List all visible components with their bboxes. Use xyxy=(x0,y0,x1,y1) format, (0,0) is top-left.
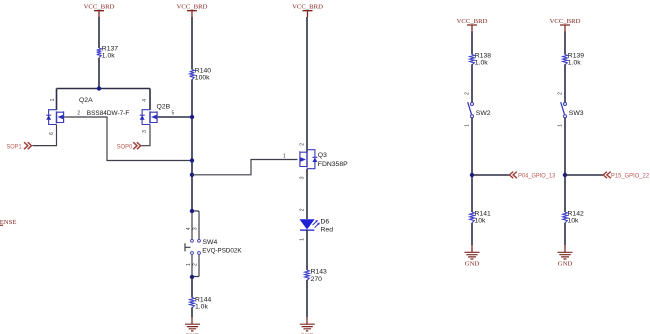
switch SW2 xyxy=(468,102,491,118)
svg-text:1: 1 xyxy=(464,124,470,127)
svg-text:SOP1: SOP1 xyxy=(7,143,23,150)
svg-text:100k: 100k xyxy=(195,74,210,81)
power VCC_BRD net 2 xyxy=(177,3,208,17)
wire to port xyxy=(565,174,603,176)
svg-text:1.0k: 1.0k xyxy=(475,59,488,66)
svg-text:SW2: SW2 xyxy=(476,110,491,117)
node SW4 top xyxy=(190,209,194,213)
svg-text:1.0k: 1.0k xyxy=(195,304,208,311)
wire xyxy=(191,307,193,317)
node Q2A gate junction xyxy=(190,158,194,162)
resistor R143 xyxy=(305,269,327,284)
wire xyxy=(471,118,473,212)
svg-text:1: 1 xyxy=(186,263,192,266)
svg-text:GND: GND xyxy=(558,260,573,267)
wire xyxy=(564,118,566,212)
node Q3 gate junction xyxy=(190,173,194,177)
node GPIO22 junction xyxy=(563,173,567,177)
svg-text:R143: R143 xyxy=(311,269,327,276)
wire to Q3 gate xyxy=(192,160,298,175)
svg-text:4: 4 xyxy=(142,99,148,102)
svg-text:Q2A: Q2A xyxy=(79,97,93,104)
svg-text:3: 3 xyxy=(299,176,305,179)
switch SW4 xyxy=(185,211,242,277)
svg-text:2: 2 xyxy=(557,92,563,95)
wire Q3 drain xyxy=(306,17,308,152)
node junction xyxy=(97,86,101,90)
power VCC_BRD net 3 xyxy=(292,3,323,17)
port P04_GPIO_13 xyxy=(509,172,555,180)
svg-text:4: 4 xyxy=(186,227,192,230)
resistor R138 xyxy=(470,52,492,66)
port SOP1 xyxy=(7,142,32,150)
svg-text:1: 1 xyxy=(50,98,56,101)
node SW4 bottom xyxy=(190,275,194,279)
wire Q2B source xyxy=(141,125,150,146)
transistor Q3 xyxy=(300,150,348,169)
resistor R142 xyxy=(563,211,584,225)
svg-text:10k: 10k xyxy=(568,218,580,225)
resistor R139 xyxy=(563,52,585,66)
wire xyxy=(98,17,100,48)
svg-text:EVQ-PSD02K: EVQ-PSD02K xyxy=(202,247,242,254)
wire xyxy=(98,58,100,89)
power VCC_BRD net 1 xyxy=(84,3,115,17)
svg-text:1: 1 xyxy=(557,124,563,127)
transistor Q2A xyxy=(46,97,93,125)
wire xyxy=(191,277,193,298)
power VCC_BRD net 4 xyxy=(457,18,488,32)
ground GND under R143 xyxy=(300,317,315,334)
svg-text:5: 5 xyxy=(172,111,175,117)
svg-text:2: 2 xyxy=(464,92,470,95)
svg-text:2: 2 xyxy=(299,143,305,146)
ground GND under R144 xyxy=(185,317,200,334)
resistor R140 xyxy=(190,67,212,81)
svg-text:SOP0: SOP0 xyxy=(117,143,133,150)
port SOP0 xyxy=(117,142,141,150)
wire top bus xyxy=(57,88,151,90)
svg-text:R137: R137 xyxy=(102,46,118,53)
svg-text:Q3: Q3 xyxy=(318,152,327,159)
power VCC_BRD net 5 xyxy=(550,18,581,32)
resistor R144 xyxy=(190,297,212,311)
wire xyxy=(564,223,566,245)
wire xyxy=(471,64,473,102)
svg-text:1.0k: 1.0k xyxy=(102,53,115,60)
svg-text:R138: R138 xyxy=(475,52,491,59)
svg-text:VCC_BRD: VCC_BRD xyxy=(550,18,581,25)
resistor R141 xyxy=(470,211,491,225)
wire vertical net2 xyxy=(191,79,193,211)
svg-text:SW4: SW4 xyxy=(203,239,218,246)
wire Q2B drain xyxy=(149,89,151,111)
svg-text:6: 6 xyxy=(49,132,55,135)
net flag SENSE (clipped at left edge) xyxy=(0,219,16,226)
switch SW3 xyxy=(561,102,584,118)
svg-text:VCC_BRD: VCC_BRD xyxy=(457,18,488,25)
wire Q2A gate to node xyxy=(64,117,192,161)
wire Q3 source to LED xyxy=(306,169,308,219)
wire xyxy=(306,230,308,270)
resistor R137 xyxy=(97,46,119,60)
svg-text:1.0k: 1.0k xyxy=(568,59,581,66)
svg-text:270: 270 xyxy=(311,276,323,283)
svg-text:R139: R139 xyxy=(568,52,584,59)
svg-text:VCC_BRD: VCC_BRD xyxy=(292,3,323,10)
svg-text:D6: D6 xyxy=(321,219,330,226)
svg-text:2: 2 xyxy=(77,111,80,117)
svg-text:P04_GPIO_13: P04_GPIO_13 xyxy=(518,173,556,180)
transistor Q2B xyxy=(140,104,171,125)
ground GND under R141 xyxy=(465,245,480,267)
wire xyxy=(306,280,308,317)
svg-text:10k: 10k xyxy=(475,218,487,225)
wire xyxy=(471,32,473,55)
wire xyxy=(564,32,566,55)
wire Q2B gate to node xyxy=(158,116,192,118)
svg-text:R141: R141 xyxy=(475,211,491,218)
svg-text:2: 2 xyxy=(193,263,199,266)
svg-text:3: 3 xyxy=(142,130,148,133)
svg-text:R140: R140 xyxy=(195,67,211,74)
wire to port xyxy=(472,174,509,176)
wire xyxy=(191,17,193,70)
wire Q2A source xyxy=(33,125,57,146)
diode D6 LED xyxy=(300,219,334,234)
node GPIO13 junction xyxy=(470,173,474,177)
svg-text:BSS84DW-7-F: BSS84DW-7-F xyxy=(87,110,130,117)
svg-text:Q2B: Q2B xyxy=(157,104,171,111)
node Q2B gate junction xyxy=(190,115,194,119)
svg-text:FDN358P: FDN358P xyxy=(318,161,348,168)
port P15_GPIO_22 xyxy=(603,172,649,180)
svg-text:VCC_BRD: VCC_BRD xyxy=(177,3,208,10)
wire Q2A drain xyxy=(56,89,58,111)
wire xyxy=(564,64,566,102)
svg-text:GND: GND xyxy=(465,260,480,267)
svg-text:SW3: SW3 xyxy=(569,110,584,117)
wire xyxy=(471,223,473,245)
svg-text:R142: R142 xyxy=(568,211,584,218)
svg-text:3: 3 xyxy=(193,227,199,230)
svg-text:1: 1 xyxy=(299,238,305,241)
svg-text:VCC_BRD: VCC_BRD xyxy=(84,3,115,10)
svg-text:2: 2 xyxy=(299,208,305,211)
ground GND under R142 xyxy=(558,245,573,267)
svg-text:P15_GPIO_22: P15_GPIO_22 xyxy=(611,173,650,180)
svg-text:R144: R144 xyxy=(195,297,211,304)
svg-text:Red: Red xyxy=(321,227,334,234)
svg-text:1: 1 xyxy=(283,154,286,160)
